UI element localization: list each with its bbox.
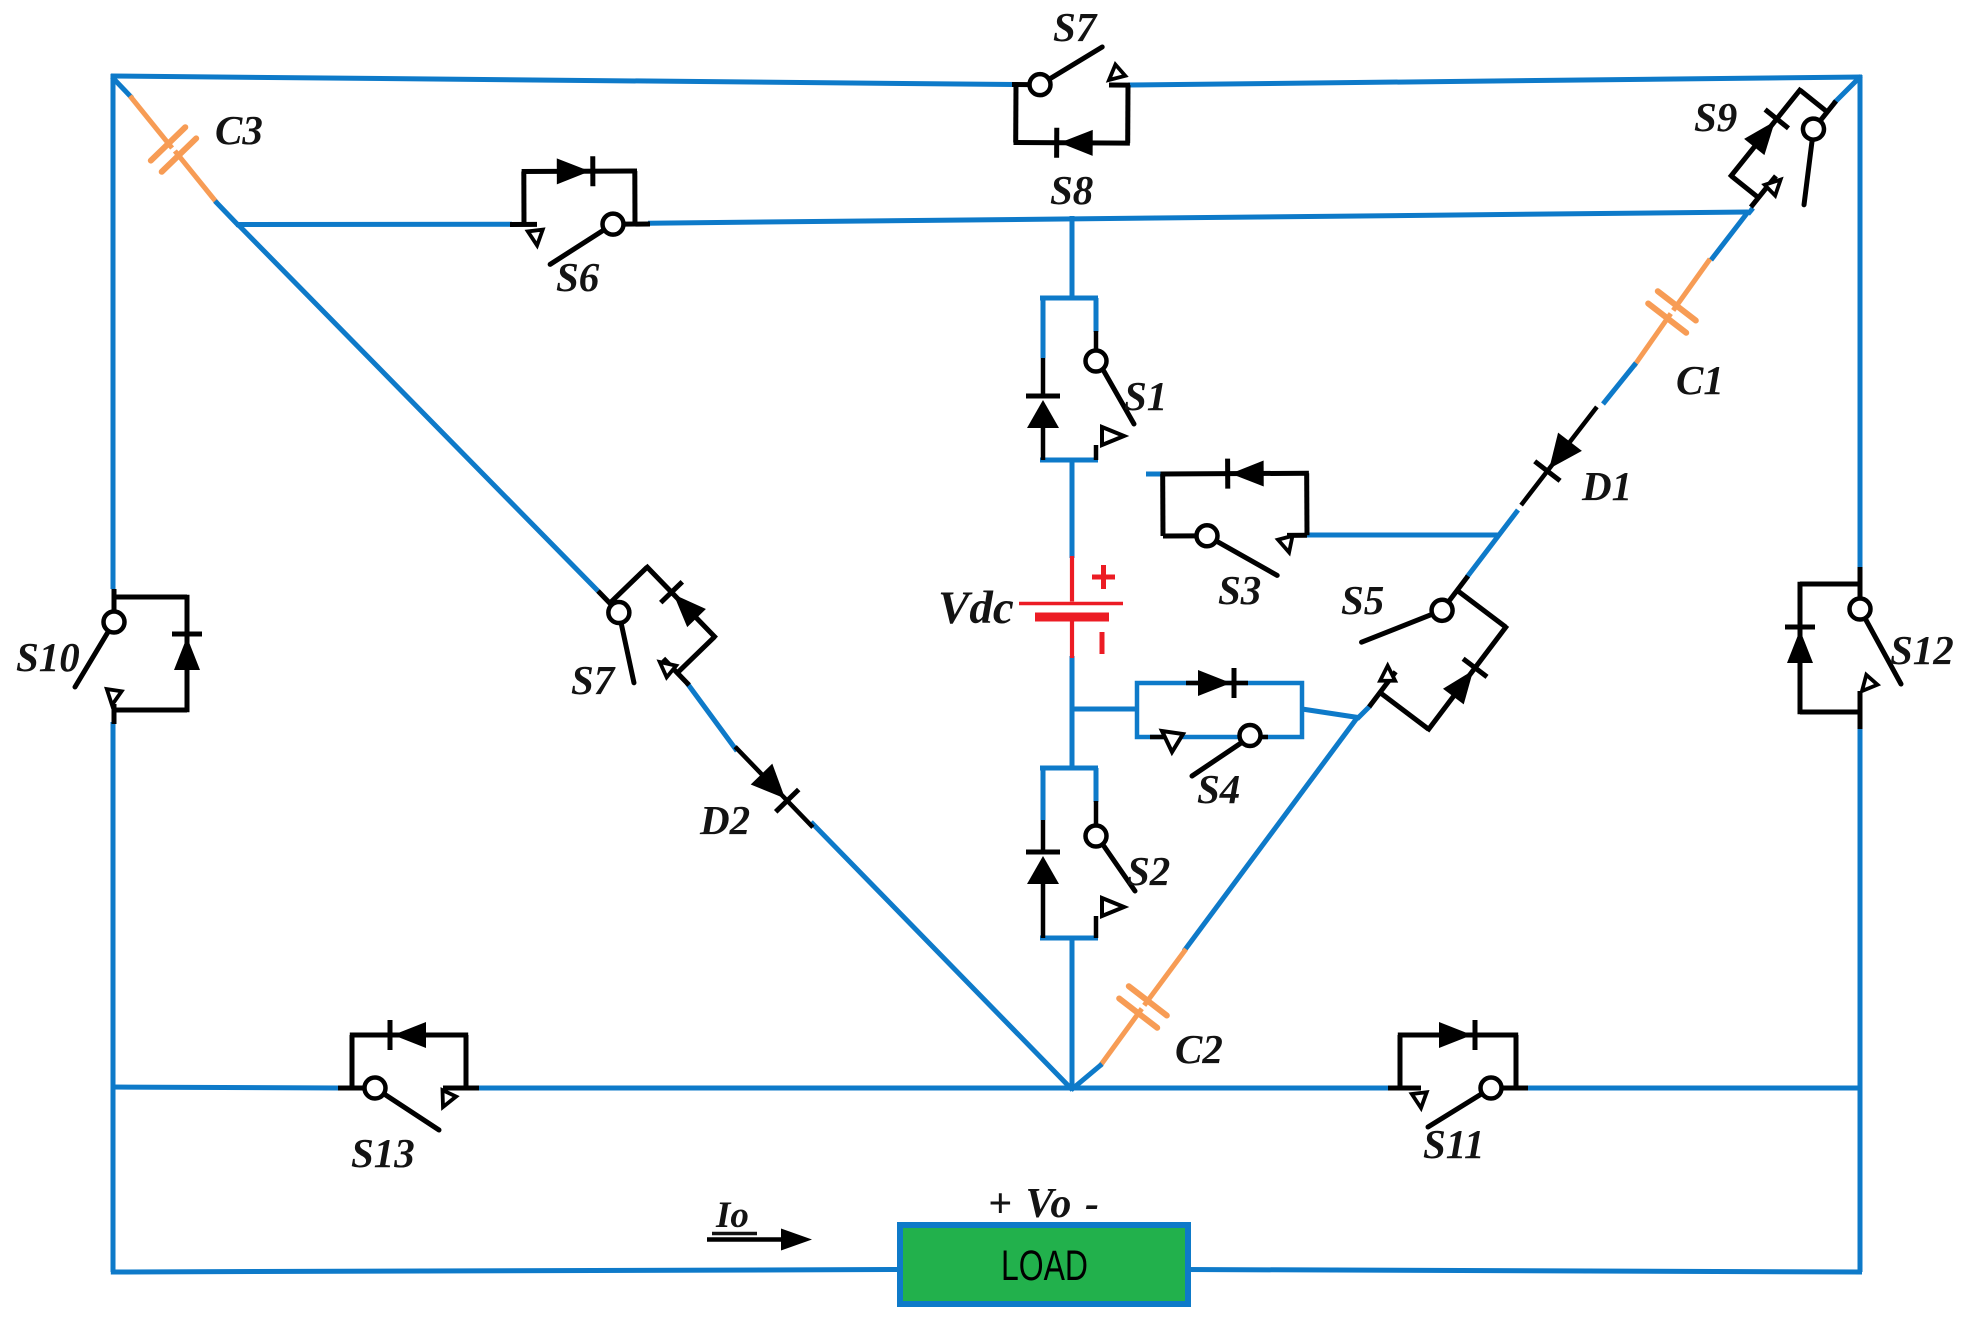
svg-text:S9: S9 bbox=[1694, 94, 1737, 140]
switch S5 bbox=[1333, 549, 1528, 753]
svg-text:S5: S5 bbox=[1341, 577, 1384, 623]
switch S7 (mid diagonal) bbox=[571, 544, 738, 711]
wire C1 orange lead lower bbox=[1634, 314, 1671, 366]
wire S3 right to diagonal bbox=[1305, 533, 1500, 538]
svg-text:S12: S12 bbox=[1890, 627, 1954, 673]
switch S1 bbox=[1026, 298, 1134, 460]
label C1 bbox=[1676, 357, 1724, 403]
label S3 bbox=[1218, 567, 1261, 613]
svg-text:S11: S11 bbox=[1423, 1121, 1485, 1167]
switch S3 bbox=[1160, 458, 1309, 576]
switch S4 bbox=[1137, 668, 1302, 776]
wire S3 left stub bbox=[1146, 472, 1166, 477]
wire left diagonal upper bbox=[238, 225, 598, 592]
load box bbox=[900, 1225, 1188, 1304]
wire C2 orange lead lower bbox=[1100, 1009, 1142, 1066]
svg-text:Vdc: Vdc bbox=[938, 582, 1014, 634]
label Io bbox=[712, 1195, 757, 1236]
label +Vo- bbox=[988, 1181, 1099, 1227]
wire S4 left bbox=[1071, 707, 1137, 712]
label S9 bbox=[1694, 94, 1737, 140]
svg-text:S10: S10 bbox=[16, 634, 80, 680]
switch S2 bbox=[1026, 768, 1135, 938]
switch S10 bbox=[75, 589, 202, 724]
svg-text:S7: S7 bbox=[1053, 4, 1098, 50]
wire lower horizontal segment A bbox=[111, 1087, 340, 1088]
label S10 bbox=[16, 634, 80, 680]
wire battery to S2 bbox=[1070, 656, 1075, 768]
switch S6 bbox=[510, 156, 650, 264]
svg-text:S13: S13 bbox=[351, 1130, 415, 1176]
svg-text:C3: C3 bbox=[215, 107, 263, 153]
svg-text:D2: D2 bbox=[699, 797, 750, 843]
capacitor C3 bbox=[151, 127, 196, 172]
svg-text:D1: D1 bbox=[1581, 463, 1632, 509]
svg-text:S4: S4 bbox=[1197, 766, 1240, 812]
wire C2 orange lead upper bbox=[1144, 949, 1186, 1005]
svg-text:S2: S2 bbox=[1127, 848, 1170, 894]
label S7 mid bbox=[571, 657, 616, 703]
label S4 bbox=[1197, 766, 1240, 812]
wire C3 orange lead upper bbox=[130, 96, 172, 148]
wire bottom rail right of LOAD bbox=[1186, 1270, 1862, 1273]
svg-text:LOAD: LOAD bbox=[1001, 1242, 1088, 1290]
wire C2 to vertex bbox=[1071, 1064, 1102, 1090]
label C3 bbox=[215, 107, 263, 153]
label S12 bbox=[1890, 627, 1954, 673]
wire centre drop from second rail bbox=[1070, 216, 1075, 298]
label S6 bbox=[556, 254, 600, 300]
svg-text:S8: S8 bbox=[1050, 167, 1093, 213]
wire S1 to battery bbox=[1070, 460, 1075, 558]
svg-text:S6: S6 bbox=[556, 254, 600, 300]
wire left diagonal middle bbox=[687, 683, 737, 751]
svg-text:S7: S7 bbox=[571, 657, 616, 703]
wire right vertical lower bbox=[1858, 727, 1863, 1272]
svg-text:S3: S3 bbox=[1218, 567, 1261, 613]
label S13 bbox=[351, 1130, 415, 1176]
wire second horizontal left bbox=[236, 222, 512, 227]
label S7 bbox=[1053, 4, 1098, 50]
svg-text:C2: C2 bbox=[1175, 1026, 1223, 1072]
output current arrow Io bbox=[707, 1229, 812, 1251]
label D1 bbox=[1581, 463, 1632, 509]
label S1 bbox=[1124, 373, 1167, 419]
wire S5 to S4 junction bbox=[1357, 706, 1370, 719]
wire C1 orange lead upper bbox=[1673, 259, 1710, 310]
wire top-left corner diagonal stub bbox=[112, 77, 132, 98]
switch S7 with diode S8 (top) bbox=[1012, 47, 1131, 159]
wire bottom rail left of LOAD bbox=[111, 1270, 902, 1273]
switch S11 bbox=[1388, 1020, 1528, 1127]
wire left vertical lower bbox=[111, 722, 116, 1272]
diode D2 bbox=[735, 747, 813, 828]
wire right diagonal to C1 bbox=[1711, 212, 1748, 260]
diode D1 bbox=[1521, 407, 1597, 505]
wire D1 to S3 junction bbox=[1467, 510, 1518, 577]
wire top-right corner diagonal stub bbox=[1834, 76, 1861, 103]
wire top-right horizontal bbox=[1128, 77, 1862, 85]
switch S9 bbox=[1712, 70, 1867, 232]
label Vdc bbox=[938, 582, 1014, 634]
svg-text:+ Vo -: + Vo - bbox=[988, 1181, 1099, 1227]
wire top-left horizontal bbox=[111, 76, 1014, 85]
wire C3 orange lead lower bbox=[175, 151, 217, 203]
wire S4 junction to C2 bbox=[1184, 718, 1357, 951]
switch S12 bbox=[1785, 567, 1901, 729]
wire C1 to D1 bbox=[1603, 363, 1636, 404]
label C2 bbox=[1175, 1026, 1223, 1072]
svg-text:Io: Io bbox=[715, 1195, 749, 1236]
wire S2 to vertex bbox=[1070, 938, 1075, 1090]
capacitor C2 bbox=[1119, 986, 1167, 1028]
label D2 bbox=[699, 797, 750, 843]
wire right vertical upper bbox=[1858, 75, 1863, 569]
label S2 bbox=[1127, 848, 1170, 894]
label S8 bbox=[1050, 167, 1093, 213]
wire lower horizontal segment C bbox=[1526, 1086, 1862, 1091]
switch S13 bbox=[338, 1020, 479, 1130]
wire S4 right to diagonal bbox=[1302, 709, 1358, 718]
wire second horizontal right bbox=[648, 212, 1748, 223]
label S11 bbox=[1423, 1121, 1485, 1167]
svg-text:S1: S1 bbox=[1124, 373, 1167, 419]
wire diagonal C3 to second rail bbox=[215, 201, 239, 226]
voltage source Vdc bbox=[1019, 556, 1123, 658]
wire S9 to second rail stub bbox=[1748, 208, 1753, 214]
label S5 bbox=[1341, 577, 1384, 623]
wire left vertical upper bbox=[111, 74, 116, 589]
svg-text:C1: C1 bbox=[1676, 357, 1724, 403]
capacitor C1 bbox=[1648, 291, 1696, 333]
wire left diagonal lower bbox=[811, 822, 1073, 1090]
wire lower horizontal segment B bbox=[477, 1086, 1390, 1091]
